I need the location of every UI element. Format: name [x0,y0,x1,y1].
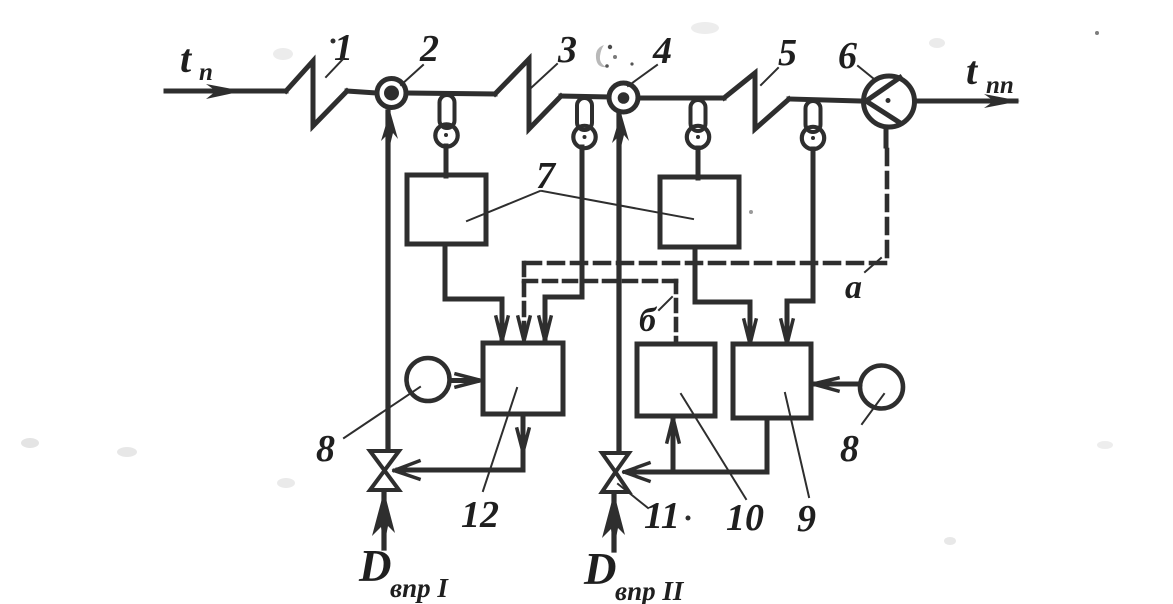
label 10 [726,497,764,539]
arrowhead into left valve [394,461,419,479]
leader tick for label а [865,258,881,272]
svg-text:пп: пп [986,72,1014,99]
svg-text:12: 12 [461,494,499,536]
leader line for label 3 [531,64,557,88]
svg-text:11: 11 [644,495,680,537]
leader line for label 8 left [344,387,420,438]
label 11 [644,495,680,537]
label 12 [461,494,499,536]
arrowhead (dashed line) into box 12 middle input [518,317,530,341]
controller box 7 (right) [660,177,739,247]
svg-text:t: t [966,48,979,93]
label 3 [557,29,577,71]
node: solid stub below fan 6 [884,127,889,146]
leader lines for label 7 to both boxes [467,191,693,221]
wire: box 7 right output elbow into box 9 [695,247,750,343]
wire: setter 8 output arrow into box 9 [816,382,860,387]
wire: injection supply below valve 11 with arrow [611,496,616,550]
svg-text:5: 5 [778,32,797,74]
speck between labels 11 and 10 [686,516,691,521]
leader line for label 4 [628,65,657,86]
leader line for label 6 [858,66,874,79]
svg-text:8: 8 [840,428,859,470]
svg-text:а: а [845,269,862,306]
svg-text:3: 3 [557,29,577,71]
svg-text:впр I: впр I [390,573,449,603]
superheater section 5 (zigzag) [724,73,789,129]
svg-text:п: п [199,59,213,86]
svg-text:2: 2 [419,28,439,70]
leader line for label 12 [483,388,517,491]
arrowhead into box 9 (right input) [781,320,793,344]
label 2 [419,28,439,70]
label 8 (left) [316,428,335,470]
regulator box 10 [637,344,715,416]
label t_пп outlet temperature [966,48,1014,99]
arrowhead up into injector 2 [381,111,398,145]
label t_п inlet temperature [180,36,213,86]
label 1 [334,27,353,69]
label 4 [652,30,672,72]
arrowhead up into injector 4 [612,113,629,147]
regulator box 9 [733,344,811,418]
label D впр II [583,544,685,604]
label 5 [778,32,797,74]
svg-text:9: 9 [797,498,816,540]
wire: sensor 4 signal down and elbow into box 9 [787,149,813,343]
injection valve (left, stage I): bowtie [370,451,399,490]
svg-text:8: 8 [316,428,335,470]
wire: box 7 left output elbow into box 12 [445,244,502,340]
fan/pump 6: circle with chords [864,76,915,127]
leader line for label 1 [326,59,343,77]
wire: branch up into box 10 bottom [671,420,676,472]
dashed branch б: vertical drop into box 10 [674,281,679,343]
wire: sensor 2 signal down and elbow into box 12 [545,147,582,340]
arrowhead into valve 11 [624,463,649,481]
label а [845,269,862,306]
regulator box 12 [483,343,563,414]
dashed feedback line а: vertical drop into box 12 [522,263,527,338]
arrowhead into box 12 (right input) [539,317,551,341]
svg-text:б: б [639,302,658,339]
wire: pipe between section 5 and fan 6 [789,99,862,101]
node: inlet flow arrow on pipe [206,84,243,99]
setpoint device 8 (right circle) [860,366,903,409]
wire: pipe between section 3 and injector 4 [561,96,608,97]
label D впр I [358,541,449,603]
label 8 (right) [840,428,859,470]
dashed branch б: horizontal from node to the right [524,279,676,284]
leader line for label 8 right [862,394,884,424]
node: outlet flow arrowhead [984,94,1020,108]
wire: thick injection water line up to injector 4 [616,115,621,452]
wire: main steam pipe inlet segment [166,89,286,94]
wire: pipe between injector 2 and section 3 [408,93,495,94]
temperature sensor after injector 4 [687,100,709,178]
svg-text:D: D [583,544,617,594]
superheater section 1 (zigzag) [286,61,347,126]
injector (attemperator) 2: circle with dot [377,79,406,108]
label 9 [797,498,816,540]
svg-text:1: 1 [334,27,353,69]
wire: box 9 output down then left to valve 11 [628,418,767,472]
svg-text:впр II: впр II [615,576,685,604]
wire: outlet pipe with arrow [915,99,1016,104]
label 7 [536,155,557,197]
svg-text:10: 10 [726,497,764,539]
leader line for label 5 [761,68,778,85]
svg-text:6: 6 [838,35,857,77]
temperature sensor after injector 2 (thermowell+bulb) [435,95,457,176]
setpoint device 8 (left circle) [407,358,450,401]
wire: thick injection water line up to injector 2 [385,112,390,450]
wire: box 12 output down with arrow then left to valve [521,414,526,470]
arrowhead into box 9 (left input) [744,320,756,344]
wire: injection supply below left valve with arrow [381,494,386,548]
speck near label 1 [331,39,336,44]
controller box 7 (left) [407,175,486,244]
superheater section 3 (zigzag) [495,59,561,129]
label 6 [838,35,857,77]
arrowhead into box 12 (left input) [496,317,508,341]
wire: pipe between injector 4 and section 5 [638,96,724,101]
temperature sensor before fan 6 [802,101,824,149]
wire: pipe between section 1 and injector 2 [347,91,376,93]
leader tick for label б [659,297,672,310]
smudge stain left of label 4 [596,45,634,68]
svg-text:D: D [358,541,392,591]
wire: setter 8 output arrow into box 12 [450,378,477,383]
temperature sensor before injector 4 [573,98,595,148]
injector (attemperator) 4: circle with dot [609,83,638,112]
dashed feedback line а: vertical below fan 6 [885,150,890,263]
injection valve 11 (right, stage II): bowtie [602,453,629,492]
dashed feedback line а: horizontal run to the left [524,261,885,266]
leader line for label 11 [618,484,648,508]
leader line for label 9 [785,393,809,497]
svg-text:t: t [180,36,193,81]
leader line for label 2 [401,65,423,85]
leader line for label 10 [681,394,746,499]
label б [639,302,658,339]
